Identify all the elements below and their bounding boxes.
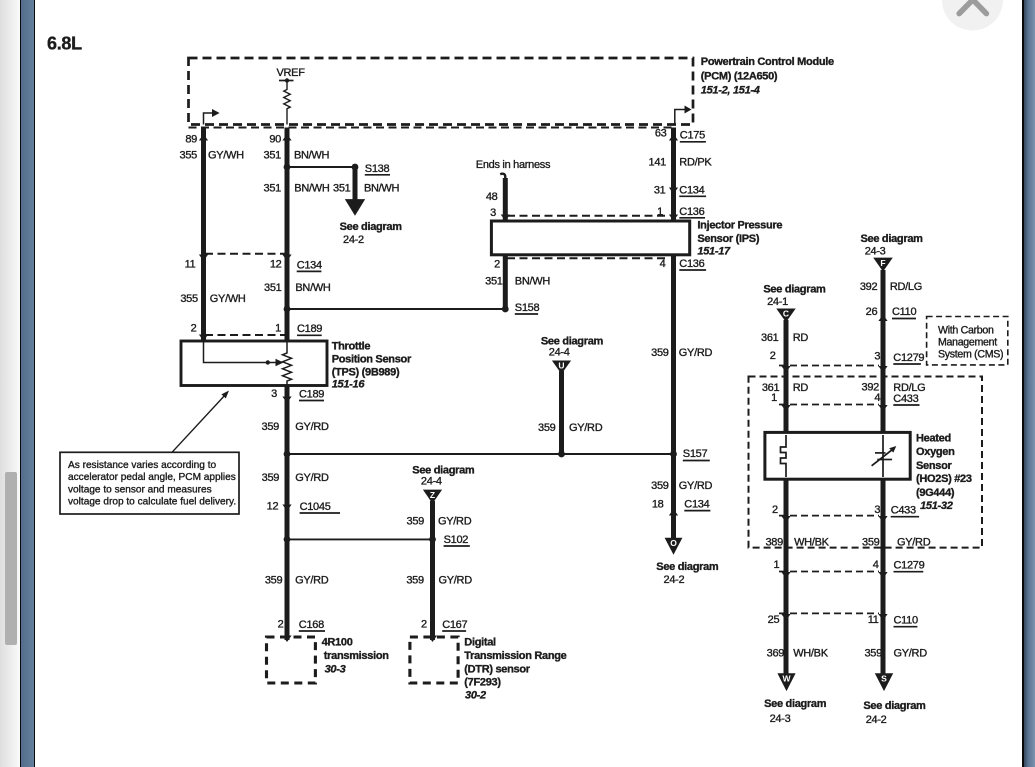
svg-text:C168: C168 <box>299 619 324 631</box>
svg-text:GY/WH: GY/WH <box>208 150 244 162</box>
svg-text:C433: C433 <box>893 393 918 405</box>
svg-text:1: 1 <box>657 206 663 218</box>
svg-text:GY/WH: GY/WH <box>210 293 246 305</box>
svg-text:24-3: 24-3 <box>770 713 791 725</box>
svg-text:359: 359 <box>651 480 669 492</box>
svg-text:U: U <box>558 361 564 371</box>
svg-text:See diagram: See diagram <box>340 221 403 233</box>
svg-text:System (CMS): System (CMS) <box>938 349 1003 361</box>
svg-text:BN/WH: BN/WH <box>364 182 400 194</box>
svg-text:BN/WH: BN/WH <box>515 275 551 287</box>
svg-text:4: 4 <box>874 392 880 404</box>
svg-text:11: 11 <box>185 259 196 271</box>
svg-text:See diagram: See diagram <box>541 335 604 347</box>
svg-text:151-32: 151-32 <box>920 500 953 512</box>
svg-text:Injector Pressure: Injector Pressure <box>697 219 782 231</box>
svg-text:2: 2 <box>494 259 500 271</box>
svg-text:Sensor: Sensor <box>916 460 953 472</box>
svg-text:voltage drop to calculate fuel: voltage drop to calculate fuel delivery. <box>68 497 236 508</box>
svg-text:11: 11 <box>868 614 879 626</box>
svg-text:3: 3 <box>271 388 277 400</box>
svg-text:389: 389 <box>765 537 783 549</box>
svg-text:See diagram: See diagram <box>763 284 826 296</box>
svg-text:Sensor (IPS): Sensor (IPS) <box>697 233 759 245</box>
svg-text:(9G444): (9G444) <box>916 487 955 499</box>
svg-text:359: 359 <box>262 472 280 484</box>
svg-text:GY/RD: GY/RD <box>679 480 713 492</box>
svg-text:48: 48 <box>486 191 498 203</box>
svg-text:C1279: C1279 <box>894 560 925 572</box>
svg-text:C189: C189 <box>297 323 322 335</box>
svg-text:369: 369 <box>767 648 785 660</box>
svg-text:141: 141 <box>649 157 667 169</box>
svg-text:2: 2 <box>770 350 776 362</box>
svg-text:24-4: 24-4 <box>549 347 570 359</box>
svg-text:GY/RD: GY/RD <box>295 472 329 484</box>
svg-text:GY/RD: GY/RD <box>679 347 713 359</box>
svg-text:151-16: 151-16 <box>332 379 366 391</box>
svg-text:GY/RD: GY/RD <box>569 422 603 434</box>
svg-text:18: 18 <box>652 499 664 511</box>
svg-text:351: 351 <box>485 275 503 287</box>
svg-text:C136: C136 <box>679 258 704 270</box>
svg-text:BN/WH: BN/WH <box>294 182 330 194</box>
svg-text:With Carbon: With Carbon <box>938 325 994 337</box>
svg-text:C110: C110 <box>894 615 918 627</box>
svg-text:6.8L: 6.8L <box>47 34 82 54</box>
svg-text:4: 4 <box>660 258 666 270</box>
svg-text:GY/RD: GY/RD <box>295 575 329 587</box>
svg-text:63: 63 <box>655 128 667 140</box>
svg-text:RD: RD <box>793 332 809 344</box>
svg-text:3: 3 <box>874 351 880 363</box>
svg-text:26: 26 <box>866 306 878 318</box>
svg-text:(PCM) (12A650): (PCM) (12A650) <box>701 71 778 83</box>
svg-text:359: 359 <box>862 537 880 549</box>
svg-text:1: 1 <box>771 392 777 404</box>
svg-text:359: 359 <box>407 516 425 528</box>
svg-text:Z: Z <box>430 490 435 500</box>
svg-text:S157: S157 <box>683 448 708 460</box>
svg-text:GY/RD: GY/RD <box>295 421 329 433</box>
svg-text:WH/BK: WH/BK <box>793 648 829 660</box>
svg-text:C1279: C1279 <box>893 352 924 364</box>
svg-text:Ends in harness: Ends in harness <box>476 159 551 171</box>
svg-text:359: 359 <box>406 575 424 587</box>
svg-text:RD/LG: RD/LG <box>890 281 922 293</box>
svg-text:S158: S158 <box>515 302 540 314</box>
svg-text:C134: C134 <box>679 185 704 197</box>
svg-text:3: 3 <box>490 207 496 219</box>
svg-text:RD/PK: RD/PK <box>679 157 712 169</box>
svg-text:voltage to sensor and measures: voltage to sensor and measures <box>68 484 212 495</box>
svg-text:C: C <box>783 309 789 319</box>
svg-text:As resistance varies according: As resistance varies according to <box>68 460 216 471</box>
svg-text:4: 4 <box>873 559 879 571</box>
svg-text:accelerator pedal angle, PCM a: accelerator pedal angle, PCM applies <box>68 472 236 483</box>
svg-text:C433: C433 <box>891 505 916 517</box>
svg-text:355: 355 <box>180 150 198 162</box>
svg-text:359: 359 <box>262 421 280 433</box>
svg-text:351: 351 <box>264 282 282 294</box>
svg-text:Throttle: Throttle <box>332 340 371 352</box>
svg-text:4R100: 4R100 <box>322 637 353 649</box>
svg-text:W: W <box>782 674 791 684</box>
svg-text:Digital: Digital <box>464 637 496 649</box>
svg-text:2: 2 <box>772 504 778 516</box>
svg-text:O: O <box>670 538 677 548</box>
svg-text:24-2: 24-2 <box>866 714 887 726</box>
svg-text:351: 351 <box>264 150 282 162</box>
svg-text:C134: C134 <box>684 499 709 511</box>
svg-text:24-3: 24-3 <box>865 245 886 257</box>
svg-text:BN/WH: BN/WH <box>295 282 331 294</box>
svg-text:S: S <box>881 674 887 684</box>
svg-text:RD: RD <box>793 382 809 394</box>
svg-text:30-2: 30-2 <box>465 689 486 701</box>
svg-text:151-2, 151-4: 151-2, 151-4 <box>701 85 760 97</box>
svg-text:S138: S138 <box>365 163 390 175</box>
svg-text:1: 1 <box>275 323 281 335</box>
svg-text:25: 25 <box>768 614 780 626</box>
svg-text:C134: C134 <box>297 259 322 271</box>
svg-text:2: 2 <box>278 619 284 631</box>
svg-text:(7F293): (7F293) <box>464 677 501 689</box>
svg-text:359: 359 <box>651 347 669 359</box>
svg-text:89: 89 <box>185 134 197 146</box>
svg-text:Powertrain Control Module: Powertrain Control Module <box>701 56 834 68</box>
svg-text:12: 12 <box>270 259 282 271</box>
svg-text:24-1: 24-1 <box>767 296 788 308</box>
svg-text:GY/RD: GY/RD <box>438 516 472 528</box>
svg-text:24-4: 24-4 <box>421 476 442 488</box>
svg-text:GY/RD: GY/RD <box>439 575 473 587</box>
svg-text:355: 355 <box>180 293 198 305</box>
svg-text:24-2: 24-2 <box>343 234 364 246</box>
svg-text:BN/WH: BN/WH <box>294 150 330 162</box>
svg-text:90: 90 <box>269 134 281 146</box>
svg-text:30-3: 30-3 <box>325 664 346 676</box>
svg-text:359: 359 <box>265 575 283 587</box>
svg-text:GY/RD: GY/RD <box>897 537 931 549</box>
svg-text:See diagram: See diagram <box>861 233 924 245</box>
svg-text:C110: C110 <box>892 306 916 318</box>
svg-text:See diagram: See diagram <box>656 561 719 573</box>
svg-text:WH/BK: WH/BK <box>794 537 830 549</box>
svg-text:See diagram: See diagram <box>764 698 827 710</box>
svg-text:24-2: 24-2 <box>664 574 685 586</box>
svg-text:151-17: 151-17 <box>697 246 731 258</box>
svg-text:Oxygen: Oxygen <box>916 446 955 458</box>
svg-text:3: 3 <box>874 504 880 516</box>
svg-text:transmission: transmission <box>324 650 389 662</box>
svg-text:2: 2 <box>191 323 197 335</box>
svg-text:Heated: Heated <box>916 432 951 444</box>
svg-text:Transmission Range: Transmission Range <box>464 650 566 662</box>
svg-text:Management: Management <box>938 337 997 349</box>
svg-text:GY/RD: GY/RD <box>894 648 928 660</box>
svg-text:1: 1 <box>773 559 779 571</box>
svg-text:(HO2S) #23: (HO2S) #23 <box>916 473 972 485</box>
svg-text:12: 12 <box>267 501 279 513</box>
svg-text:F: F <box>880 258 885 268</box>
svg-text:359: 359 <box>864 648 882 660</box>
svg-text:Position Sensor: Position Sensor <box>332 353 412 365</box>
svg-text:S102: S102 <box>444 534 469 546</box>
svg-text:C167: C167 <box>442 619 467 631</box>
svg-text:(TPS) (9B989): (TPS) (9B989) <box>332 366 400 378</box>
svg-text:See diagram: See diagram <box>863 700 926 712</box>
svg-text:VREF: VREF <box>277 67 306 79</box>
svg-text:351: 351 <box>264 182 282 194</box>
svg-text:392: 392 <box>860 281 878 293</box>
svg-text:C189: C189 <box>299 389 324 401</box>
svg-text:(DTR) sensor: (DTR) sensor <box>464 664 530 676</box>
svg-text:2: 2 <box>421 619 427 631</box>
svg-text:359: 359 <box>538 422 556 434</box>
svg-text:C175: C175 <box>680 130 705 142</box>
svg-text:351: 351 <box>333 182 351 194</box>
svg-text:C1045: C1045 <box>300 501 331 513</box>
svg-text:C136: C136 <box>679 206 704 218</box>
svg-text:361: 361 <box>761 332 779 344</box>
svg-text:31: 31 <box>654 185 666 197</box>
